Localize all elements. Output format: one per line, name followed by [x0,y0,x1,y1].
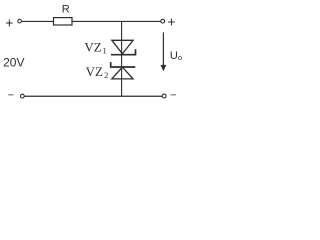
svg-text:−: − [170,90,176,102]
svg-text:R: R [62,4,70,16]
svg-text:+: + [5,14,13,30]
svg-text:−: − [8,90,14,102]
svg-text:20V: 20V [3,55,24,69]
svg-text:+: + [167,14,175,30]
